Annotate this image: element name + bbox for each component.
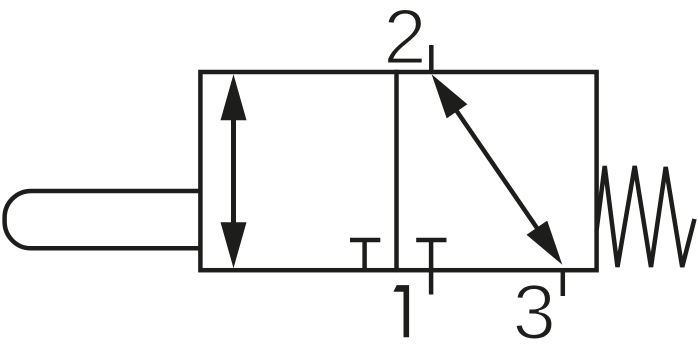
port 3 connection stub [561, 268, 566, 296]
port label 1 [393, 285, 409, 337]
svg-text:3: 3 [513, 268, 556, 351]
port 2 connection stub [429, 45, 434, 74]
flow-path arrow, left position (double-headed vertical) [221, 74, 247, 268]
return spring [597, 166, 695, 267]
port 1 connection stub [429, 268, 434, 295]
toggle lever actuator (capsule) [5, 191, 201, 248]
flow-path arrow 2-3, right position (double-headed diagonal) [432, 74, 563, 265]
closed port symbol at port 1, right position (T) [416, 240, 446, 272]
valve body frame (two-position box) [200, 72, 596, 270]
closed port symbol, left position (T) [350, 240, 380, 270]
position divider line [394, 70, 399, 272]
svg-text:2: 2 [383, 0, 426, 81]
